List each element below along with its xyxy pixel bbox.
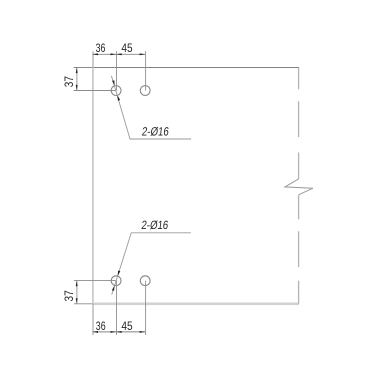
top hole leader line <box>111 76 191 139</box>
bottom dim arrows mid <box>111 331 122 333</box>
top dimension line <box>92 53 145 55</box>
left top dim extension bottom (to H1 center) <box>74 90 117 92</box>
plate right edge dashed upper <box>298 68 300 179</box>
plate right edge dashed lower <box>298 195 300 304</box>
top leader arrow lower <box>118 95 121 101</box>
svg-text:45: 45 <box>121 41 132 55</box>
left top dimension line 37 <box>76 68 78 91</box>
svg-text:2-Ø16: 2-Ø16 <box>141 218 170 232</box>
left top dim arrow down <box>76 85 78 91</box>
hole H3 bottom-left <box>111 276 121 286</box>
plate bottom edge <box>92 302 299 305</box>
bottom dim extension left <box>92 304 94 335</box>
break symbol <box>285 179 313 195</box>
left bottom dim arrow up <box>76 281 78 287</box>
bottom leader arrow lower <box>112 285 115 291</box>
plate left edge <box>92 67 94 303</box>
bottom dim arrow right <box>140 331 146 333</box>
top dim extension line mid (to H1 center) <box>116 51 118 90</box>
svg-text:2-Ø16: 2-Ø16 <box>141 124 170 138</box>
left bottom dim extension top (to H3 center) <box>74 280 116 282</box>
left bottom dim extension bottom <box>74 303 93 305</box>
left top dim extension top <box>74 67 93 69</box>
svg-text:37: 37 <box>62 290 76 301</box>
top dim arrow right <box>140 53 146 55</box>
top leader arrow upper <box>112 80 115 86</box>
svg-text:36: 36 <box>96 319 106 333</box>
top dim arrows mid <box>111 53 122 55</box>
svg-text:36: 36 <box>96 41 106 55</box>
bottom dim arrow left <box>92 331 98 333</box>
left top dim arrow up <box>76 68 78 74</box>
bottom dimension line <box>92 331 145 333</box>
bottom dim extension right (from H4 center) <box>145 281 147 335</box>
top dim extension line right (to H2 center) <box>145 51 147 90</box>
svg-text:45: 45 <box>121 319 132 333</box>
bottom hole leader line <box>112 233 191 295</box>
svg-text:37: 37 <box>62 76 76 87</box>
plate top edge <box>92 67 299 69</box>
hole H4 bottom-right <box>140 276 150 286</box>
top dim arrow left <box>92 53 98 55</box>
hole H1 top-left <box>111 86 121 96</box>
bottom dim extension mid (from H3 center) <box>116 281 118 335</box>
left bottom dim arrow down <box>76 298 78 304</box>
bottom leader arrow upper <box>118 271 121 277</box>
left bottom dimension line 37 <box>76 281 78 304</box>
hole H2 top-right <box>140 86 150 96</box>
top dim extension line left <box>92 51 94 67</box>
